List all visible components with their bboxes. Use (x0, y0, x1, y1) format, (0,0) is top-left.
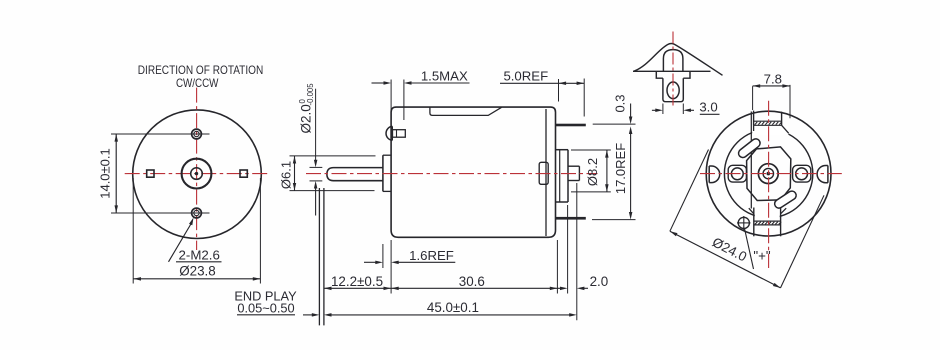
dimension 0.3 (593, 123, 636, 125)
svg-text:2.0: 2.0 (590, 274, 609, 289)
motor body outline (391, 107, 555, 237)
dimension O24.0 (670, 150, 709, 232)
top tab white mask (752, 126, 788, 135)
body top label recess notch (430, 107, 502, 115)
shaft boss outer ring (182, 159, 212, 189)
dimension O6.1 (290, 155, 376, 157)
svg-text:12.2±0.5: 12.2±0.5 (331, 274, 383, 289)
svg-text:-0.005: -0.005 (306, 83, 315, 106)
brush card edge line (750, 112, 752, 209)
rear red horizontal centerline (700, 173, 842, 175)
front view red vertical centerline (196, 88, 198, 250)
svg-text:0.05~0.50: 0.05~0.50 (237, 301, 294, 316)
svg-text:14.0±0.1: 14.0±0.1 (98, 148, 113, 199)
end play lines (318, 188, 320, 325)
shaft circle (191, 168, 203, 180)
upper-left kidney slot (737, 137, 762, 159)
svg-text:"+": "+" (753, 248, 771, 263)
dimension 1.6REF (382, 244, 384, 268)
svg-text:30.6: 30.6 (459, 274, 485, 289)
svg-text:17.0REF: 17.0REF (613, 143, 628, 194)
front thru-bolt (386, 126, 392, 140)
cap profile dome curve (634, 44, 723, 76)
shaft (327, 168, 383, 181)
screw hole bottom 2-M2.6 (192, 208, 202, 218)
cap profile baseline (633, 70, 711, 72)
upper terminal (556, 124, 586, 127)
bottom tab sides (753, 208, 755, 237)
rear shaft stub (568, 165, 579, 167)
bottom tab white mask (755, 206, 780, 234)
right screw head (796, 168, 808, 180)
front view outer housing circle O23.8 (133, 110, 262, 239)
terminal flange (656, 71, 690, 78)
rear bearing pocket (539, 162, 548, 184)
dimension O8.2 (571, 149, 611, 151)
dimension 1.5MAX (390, 80, 392, 121)
dimension O23.8 (132, 178, 134, 284)
svg-text:0.3: 0.3 (613, 94, 628, 112)
top tab hatch bar (754, 120, 782, 122)
rear view outer circle (706, 111, 831, 236)
lower terminal (556, 217, 586, 220)
svg-text:7.8: 7.8 (764, 71, 782, 86)
extension lines bottom (390, 240, 392, 294)
end cap seam (545, 109, 547, 236)
dimension 45.0+-0.1 (303, 314, 314, 316)
dimension 14.0+-0.1 (111, 133, 185, 135)
svg-text:5.0REF: 5.0REF (503, 69, 548, 84)
dome red centerline (672, 32, 674, 106)
lower-right kidney slot (773, 189, 798, 209)
svg-text:Ø23.8: Ø23.8 (179, 263, 215, 278)
rear cap boss (556, 149, 569, 151)
dimension 3.0 (662, 104, 664, 115)
right screw pocket (793, 165, 811, 182)
svg-text:Ø8.2: Ø8.2 (585, 158, 600, 186)
dimension 7.8 (752, 86, 754, 110)
svg-text:2-M2.6: 2-M2.6 (179, 248, 220, 263)
bottom tab hatch bar (754, 220, 781, 222)
leader 2-M2.6 (169, 224, 192, 262)
left screw pocket (728, 165, 746, 182)
svg-text:Ø6.1: Ø6.1 (279, 161, 294, 189)
front view red horizontal centerline (125, 173, 270, 175)
svg-text:Ø2.0: Ø2.0 (299, 104, 314, 133)
svg-text:1.5MAX: 1.5MAX (421, 68, 468, 83)
dimension 5.0REF (500, 82, 559, 84)
screw hole top 2-M2.6 (192, 129, 202, 139)
svg-text:1.6REF: 1.6REF (409, 248, 454, 263)
svg-text:CW/CCW: CW/CCW (176, 77, 219, 90)
left square tab (147, 170, 154, 177)
left screw head (731, 168, 743, 180)
svg-text:Ø24.0: Ø24.0 (710, 235, 749, 265)
terminal stud above cap (663, 50, 683, 72)
terminal slot hole (667, 82, 679, 99)
dimension 12.2+-0.5 (324, 287, 391, 289)
svg-text:3.0: 3.0 (699, 99, 717, 114)
dimension 2.0 (557, 287, 562, 289)
bearing ring inner (763, 168, 773, 178)
rear view inner cap circle (724, 129, 812, 217)
side view red centerline (306, 173, 598, 175)
dimension O2.0 tolerance (315, 89, 317, 162)
top tab sides (753, 111, 755, 126)
plus polarity label (745, 229, 754, 270)
right square tab (240, 170, 247, 177)
dimension 30.6 (391, 287, 557, 289)
left D slot (709, 166, 720, 183)
terminal neck (663, 78, 683, 102)
rear red vertical centerline (768, 101, 770, 268)
svg-text:45.0±0.1: 45.0±0.1 (427, 300, 479, 315)
front bearing boss (382, 155, 384, 191)
right D slot (817, 166, 828, 183)
center boss octagon (747, 147, 791, 201)
bearing ring outer (758, 164, 778, 184)
svg-text:DIRECTION OF ROTATION: DIRECTION OF ROTATION (138, 64, 264, 77)
plus terminal screw (738, 217, 749, 228)
dimension 17.0REF (630, 132, 632, 214)
